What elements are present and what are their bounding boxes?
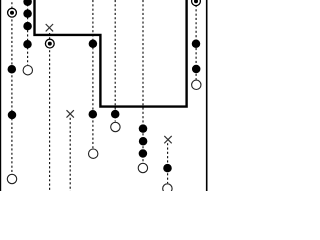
event dot P2-d (23, 40, 32, 49)
event dot P7-a (139, 124, 148, 133)
process line P5 (dashed lifeline) (92, 0, 94, 148)
event dot P2-b (23, 9, 32, 18)
fork mark X3 on P3 (46, 24, 53, 31)
event dot P6-a (111, 110, 120, 119)
process line P2 (dashed lifeline) (27, 0, 29, 65)
process line P7 (dashed lifeline) (142, 0, 144, 163)
process line P4 (dashed lifeline) (69, 118, 71, 191)
end circle P5 (89, 149, 98, 158)
right border (206, 0, 208, 191)
event dot P5-a (89, 40, 98, 49)
end circle P8 (163, 184, 172, 193)
process line P3 (dashed lifeline) (49, 33, 51, 191)
fork mark X8 on P8 (164, 136, 171, 143)
end circle P9 (192, 80, 201, 89)
end circle P6 (111, 122, 120, 131)
start marker S9 on P9 (192, 0, 201, 6)
end circle P1 (7, 174, 16, 183)
end circle P7 (138, 163, 147, 172)
event dot P7-c (139, 149, 148, 158)
event dot P9-b (192, 65, 201, 74)
process line P1 (dashed lifeline) (11, 2, 13, 174)
event dot P2-c (23, 22, 32, 31)
event dot P5-b (89, 110, 98, 119)
event dot P1-b (8, 111, 17, 120)
start marker S1 on P1 (8, 8, 17, 17)
left border (0, 0, 2, 191)
fork mark X4 on P4 (67, 110, 74, 117)
cut line (thick stepped boundary) (35, 0, 187, 107)
event dot P2-a (23, 0, 32, 6)
event dot P8-a (163, 164, 172, 173)
process line P8 (dashed lifeline) (167, 143, 169, 183)
process line P9 (dashed lifeline) (195, 5, 197, 80)
event dot P7-b (139, 137, 148, 146)
event dot P9-a (192, 39, 201, 48)
start marker S3 on P3 (45, 39, 54, 48)
end circle P2 (23, 66, 32, 75)
process line P6 (dashed lifeline) (114, 0, 116, 122)
event dot P1-a (8, 65, 16, 74)
